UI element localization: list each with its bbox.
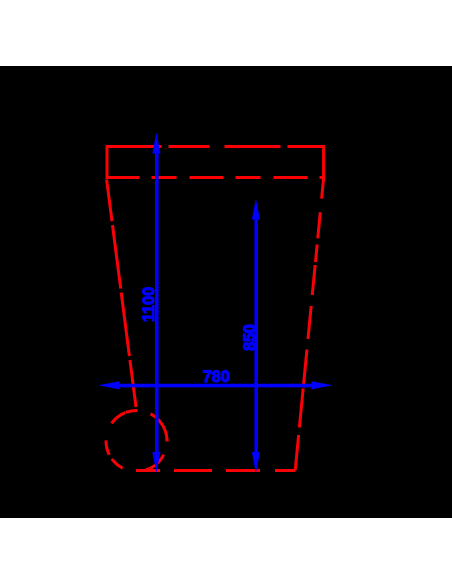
- bottom dashed line: [136, 469, 296, 472]
- arrowhead up (850): [252, 199, 260, 220]
- right slanted side (dashed): [295, 178, 323, 471]
- black drawing background: [0, 66, 452, 518]
- top collar dashed line (lower): [106, 176, 324, 179]
- collar right edge: [322, 145, 325, 179]
- svg-text:780: 780: [203, 367, 230, 386]
- collar left edge: [106, 145, 109, 179]
- arrowhead right (780): [312, 381, 333, 389]
- arrowhead down (850): [252, 452, 260, 473]
- arrowhead down (1100): [152, 452, 160, 473]
- arrowhead up (1100): [152, 133, 160, 154]
- top collar dashed line (upper): [106, 145, 326, 148]
- vertical dimension line 850 (shaft): [254, 214, 258, 460]
- arrowhead left (780): [98, 381, 119, 389]
- horizontal dimension line 780 (shaft): [112, 384, 320, 388]
- bottom-left dashed circle: [106, 411, 167, 472]
- svg-text:1100: 1100: [139, 287, 158, 322]
- left slanted side (dashed): [107, 180, 136, 408]
- vertical dimension line 1100 (shaft): [155, 148, 159, 460]
- svg-text:850: 850: [240, 324, 259, 351]
